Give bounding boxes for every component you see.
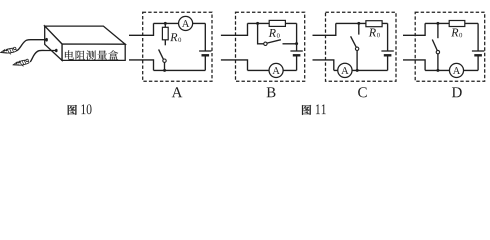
terminal post 2 [55,49,58,53]
wire stub C bottom [313,60,334,71]
box label text [65,50,118,60]
wire bottom C [334,69,388,71]
wire top C [336,22,388,24]
measurement box front face [62,44,125,60]
ammeter A3 [338,63,352,77]
switch S (C) [351,23,359,70]
node A top junction [164,22,167,25]
dashed enclosure C [326,12,397,81]
wire right D upper [477,23,479,51]
resistor R0 (B) [269,20,285,26]
wire stub D bottom [403,60,425,71]
wire stub C top [313,23,336,35]
ammeter A4 [449,63,463,77]
wire top A [154,22,206,24]
battery (C) [381,51,393,70]
node C top junction [357,22,360,25]
wire bottom D [425,69,478,71]
measurement box top face [45,26,126,44]
node C bottom junction [356,69,359,72]
option label C [358,87,367,97]
ammeter A2 [269,63,283,77]
wire right B upper [296,23,298,51]
wire right C upper [387,23,389,51]
wire top D [425,22,478,24]
wire stub B top [221,23,248,35]
caption fig10 glyph 图 [68,105,77,115]
switch S (A) [159,49,167,70]
node B right junction [295,42,298,45]
battery (D) [472,51,484,70]
terminal post 1 [45,38,48,42]
value label R0 (A) [170,33,177,41]
option label D [452,87,462,97]
value label R0 (D) [451,29,458,37]
wire stub A top [129,23,154,35]
switch S (D) [432,23,439,70]
node D top junction [436,22,439,25]
caption fig11 glyph 图 [302,105,311,115]
wire right A upper [204,23,206,51]
resistor R0 (A) [162,23,168,45]
option label B [267,87,276,97]
alligator clip 2 [13,59,30,68]
node A bottom junction [163,69,166,72]
value label R0 (B) [269,29,276,37]
dashed enclosure B [236,12,305,81]
battery (A) [199,51,211,70]
ammeter A1 [179,16,193,30]
resistor R0 (D) [449,21,465,27]
dashed enclosure A [143,12,212,81]
wire lead 1 [17,40,47,51]
switch S (B) [258,23,297,45]
resistor R0 (C) [366,21,382,27]
option label A [172,87,183,97]
wire stub A bottom [129,60,154,71]
wire bottom A [154,69,206,71]
value label R0 (C) [369,29,376,37]
alligator clip 1 [0,47,17,55]
battery (B) [290,51,302,70]
wire bottom B [248,69,297,71]
dashed enclosure D [415,12,485,81]
node B top junction [256,22,259,25]
wire stub D top [403,23,425,35]
measurement box left face [45,26,62,60]
wire stub B bottom [221,60,248,71]
wire top B [248,22,297,24]
wire lead 2 [30,50,56,62]
node D bottom junction [436,69,439,72]
